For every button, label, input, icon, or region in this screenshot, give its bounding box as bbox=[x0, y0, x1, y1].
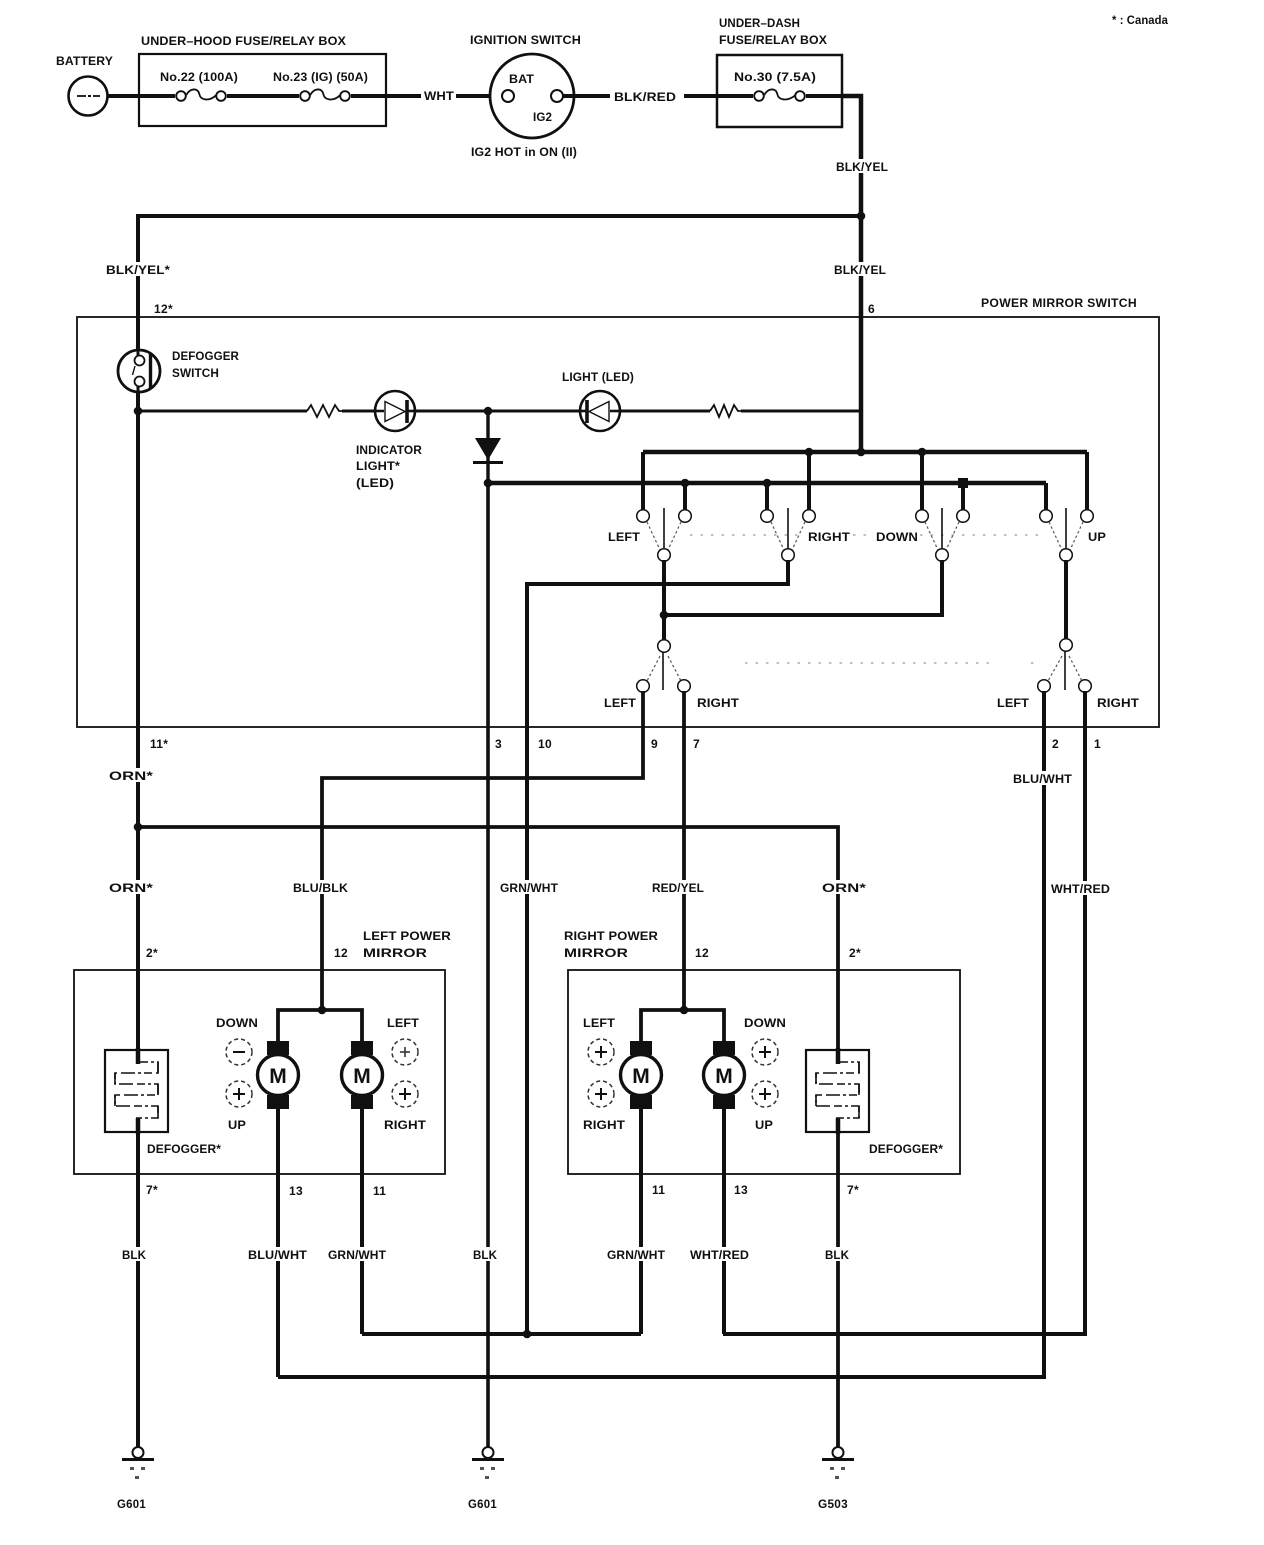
label WHT/RED mid bbox=[1049, 881, 1113, 896]
svg-text:DEFOGGER*: DEFOGGER* bbox=[869, 1144, 943, 1156]
svg-text:2: 2 bbox=[1052, 737, 1059, 751]
svg-text:13: 13 bbox=[289, 1184, 303, 1198]
svg-text:IG2: IG2 bbox=[533, 112, 552, 124]
svg-text:3: 3 bbox=[495, 737, 502, 751]
under-dash fuse/relay box bbox=[717, 18, 842, 127]
wire motor outputs left mirror bbox=[278, 1109, 362, 1377]
polarity circles left mirror bbox=[216, 1018, 426, 1132]
select switch left (LEFT/RIGHT) bbox=[604, 640, 739, 710]
wire GRN/WHT net left pin 11 bbox=[362, 1332, 641, 1336]
svg-text:LEFT: LEFT bbox=[608, 532, 640, 544]
svg-text:LEFT: LEFT bbox=[997, 698, 1029, 710]
svg-text:BLU/BLK: BLU/BLK bbox=[293, 883, 349, 895]
svg-text:BLU/WHT: BLU/WHT bbox=[248, 1250, 307, 1262]
svg-text:LEFT: LEFT bbox=[583, 1018, 615, 1030]
svg-text:1: 1 bbox=[1094, 737, 1101, 751]
wire motor outputs right mirror bbox=[641, 1109, 724, 1334]
svg-text:12*: 12* bbox=[154, 302, 173, 316]
wire pin 9 to BLU/BLK bbox=[322, 691, 643, 970]
svg-text:(LED): (LED) bbox=[356, 478, 394, 490]
svg-text:RIGHT POWER: RIGHT POWER bbox=[564, 931, 659, 943]
label GRN/WHT mid bbox=[498, 880, 560, 895]
svg-text:No.23 (IG) (50A): No.23 (IG) (50A) bbox=[273, 72, 368, 84]
svg-text:UNDER–DASH: UNDER–DASH bbox=[719, 18, 800, 30]
svg-text:12: 12 bbox=[695, 946, 709, 960]
svg-text:IGNITION SWITCH: IGNITION SWITCH bbox=[470, 35, 581, 47]
svg-text:M: M bbox=[715, 1065, 733, 1088]
junction dot at diode bbox=[484, 407, 493, 416]
label BLU/BLK bbox=[291, 880, 349, 895]
bus upper stubs bbox=[643, 452, 1087, 511]
switch LEFT (mirror adjust) bbox=[608, 508, 691, 561]
indicator light (LED) bbox=[356, 391, 423, 490]
junction dot commons bbox=[660, 611, 669, 620]
svg-text:DEFOGGER*: DEFOGGER* bbox=[147, 1144, 221, 1156]
svg-text:WHT/RED: WHT/RED bbox=[690, 1250, 749, 1262]
wire LEFT common down bbox=[662, 560, 666, 641]
wire BLK/YEL* branch to pin 12* bbox=[138, 216, 861, 317]
svg-text:RIGHT: RIGHT bbox=[384, 1120, 426, 1132]
svg-text:GRN/WHT: GRN/WHT bbox=[500, 883, 558, 895]
resistor R2 bbox=[710, 405, 741, 417]
svg-text:7: 7 bbox=[693, 737, 700, 751]
ground G601 middle bbox=[468, 1447, 504, 1511]
wire BLK/YEL vertical from under-dash box to switch pin 6 bbox=[833, 96, 889, 452]
motor M right-mirror left/right bbox=[621, 1041, 662, 1109]
svg-text:UP: UP bbox=[228, 1120, 246, 1132]
wire BLU/BLK into left mirror motors bbox=[278, 970, 362, 1043]
svg-text:RIGHT: RIGHT bbox=[697, 698, 739, 710]
wire BLK/RED to under-dash box bbox=[563, 92, 718, 104]
svg-text:UP: UP bbox=[1088, 532, 1106, 544]
svg-text:LEFT: LEFT bbox=[387, 1018, 419, 1030]
bus upper junction dots bbox=[805, 448, 927, 457]
junction dot bus lower left bbox=[484, 479, 493, 488]
bus line lower bbox=[488, 481, 1046, 486]
switch RIGHT (mirror adjust) bbox=[761, 508, 850, 561]
motor M left-mirror up/down bbox=[258, 1041, 299, 1109]
svg-text:WHT: WHT bbox=[424, 91, 454, 103]
svg-text:GRN/WHT: GRN/WHT bbox=[607, 1250, 665, 1262]
svg-text:M: M bbox=[632, 1065, 650, 1088]
pin labels right mirror bottom bbox=[652, 1183, 859, 1197]
ground G503 right bbox=[818, 1447, 854, 1511]
svg-text:No.30 (7.5A): No.30 (7.5A) bbox=[734, 72, 816, 84]
defogger switch bbox=[118, 350, 240, 392]
svg-text:BLU/WHT: BLU/WHT bbox=[1013, 774, 1072, 786]
switch DOWN (mirror adjust) bbox=[876, 508, 969, 561]
svg-text:ORN*: ORN* bbox=[109, 771, 154, 783]
wire pin 2 BLU/WHT down bbox=[278, 691, 1044, 1377]
svg-text:7*: 7* bbox=[847, 1183, 859, 1197]
note Canada bbox=[1112, 15, 1168, 27]
svg-text:DEFOGGER: DEFOGGER bbox=[172, 351, 240, 363]
svg-text:RED/YEL: RED/YEL bbox=[652, 883, 704, 895]
svg-text:M: M bbox=[353, 1065, 371, 1088]
svg-text:DOWN: DOWN bbox=[876, 532, 918, 544]
svg-text:ORN*: ORN* bbox=[822, 883, 867, 895]
svg-text:MIRROR: MIRROR bbox=[363, 948, 428, 960]
svg-text:FUSE/RELAY BOX: FUSE/RELAY BOX bbox=[719, 35, 827, 47]
fuse No.30 (7.5A) bbox=[717, 72, 842, 101]
svg-text:UNDER–HOOD FUSE/RELAY BOX: UNDER–HOOD FUSE/RELAY BOX bbox=[141, 36, 346, 48]
pin 2* left mirror bbox=[146, 946, 158, 960]
junction dot GRN/WHT bbox=[523, 1330, 532, 1339]
wire battery to under-hood box bbox=[107, 94, 140, 98]
svg-text:LIGHT*: LIGHT* bbox=[356, 461, 400, 473]
svg-text:BAT: BAT bbox=[509, 74, 534, 86]
wire RED/YEL into right mirror motors bbox=[641, 1010, 724, 1043]
svg-text:9: 9 bbox=[651, 737, 658, 751]
svg-text:11: 11 bbox=[373, 1184, 386, 1198]
label RED/YEL bbox=[650, 880, 706, 895]
left power mirror box bbox=[74, 931, 452, 1174]
bus lower junction dots bbox=[681, 478, 968, 488]
switch UP (mirror adjust) bbox=[1040, 508, 1107, 561]
svg-text:LEFT POWER: LEFT POWER bbox=[363, 931, 452, 943]
svg-text:BLK/YEL*: BLK/YEL* bbox=[106, 265, 170, 277]
pin labels bottom of switch bbox=[150, 737, 1101, 751]
svg-text:6: 6 bbox=[868, 302, 875, 316]
pin 2* right mirror bbox=[849, 946, 861, 960]
pin labels left mirror bottom bbox=[146, 1183, 386, 1198]
svg-text:DOWN: DOWN bbox=[744, 1018, 786, 1030]
svg-text:POWER MIRROR SWITCH: POWER MIRROR SWITCH bbox=[981, 296, 1137, 310]
wire DOWN common to LEFT common bbox=[664, 560, 942, 615]
defogger right bbox=[806, 1048, 943, 1156]
bottom labels bbox=[120, 1247, 150, 1262]
svg-text:UP: UP bbox=[755, 1120, 773, 1132]
motor M right-mirror up/down bbox=[704, 1041, 745, 1109]
power mirror switch box bbox=[77, 296, 1159, 727]
motor M left-mirror left/right bbox=[342, 1041, 383, 1109]
polarity circles right mirror bbox=[583, 1018, 786, 1132]
pin 12 right mirror bbox=[695, 946, 709, 960]
svg-text:2*: 2* bbox=[849, 946, 861, 960]
fuse No.22 (100A) bbox=[139, 72, 299, 101]
junction dot defogger row bbox=[134, 407, 143, 416]
svg-text:No.22 (100A): No.22 (100A) bbox=[160, 72, 238, 84]
bus lower stubs bbox=[685, 483, 1046, 511]
svg-text:ORN*: ORN* bbox=[109, 883, 154, 895]
wire pin 7 RED/YEL down bbox=[682, 691, 686, 1010]
ignition switch bbox=[470, 35, 581, 159]
wire ORN* left vertical (pin 12* to ground) bbox=[136, 317, 140, 1447]
wire RIGHT common to pin 10 bbox=[527, 560, 788, 1334]
label BLU/WHT upper bbox=[1011, 771, 1075, 786]
svg-text:10: 10 bbox=[538, 737, 552, 751]
mechanical link dashes row1 bbox=[690, 534, 1042, 536]
ground G601 left bbox=[117, 1447, 154, 1511]
wire ORN* branch to right defogger bbox=[138, 827, 838, 1447]
svg-text:DOWN: DOWN bbox=[216, 1018, 258, 1030]
under-hood fuse/relay box bbox=[139, 36, 386, 126]
battery bbox=[56, 56, 113, 116]
label BLK/YEL* bbox=[104, 262, 174, 277]
svg-text:13: 13 bbox=[734, 1183, 748, 1197]
diode bbox=[473, 411, 503, 483]
light (LED) bbox=[562, 372, 634, 431]
svg-text:G601: G601 bbox=[117, 1497, 146, 1511]
bus line upper bbox=[643, 450, 1087, 455]
pin 12 left mirror bbox=[334, 946, 348, 960]
right power mirror box bbox=[564, 931, 960, 1174]
svg-text:RIGHT: RIGHT bbox=[808, 532, 850, 544]
wire UP common down bbox=[1064, 560, 1068, 639]
label ORN* upper bbox=[107, 768, 154, 783]
mechanical link dashes row2 bbox=[745, 662, 1040, 664]
junction dot left mirror bbox=[318, 1006, 327, 1015]
svg-text:GRN/WHT: GRN/WHT bbox=[328, 1250, 386, 1262]
junction dot ORN* bbox=[134, 823, 143, 832]
svg-text:BLK/YEL: BLK/YEL bbox=[834, 265, 886, 277]
svg-text:12: 12 bbox=[334, 946, 348, 960]
svg-text:BLK: BLK bbox=[122, 1250, 147, 1262]
pin 12* bbox=[154, 302, 173, 316]
svg-text:IG2 HOT in ON (II): IG2 HOT in ON (II) bbox=[471, 147, 577, 159]
wire WHT to ignition switch bbox=[386, 91, 502, 103]
svg-text:INDICATOR: INDICATOR bbox=[356, 445, 423, 457]
label ORN* mid bbox=[107, 880, 154, 895]
wire pin 1 WHT/RED down bbox=[723, 691, 1085, 1334]
junction at BLK/YEL branch bbox=[857, 212, 866, 221]
svg-text:G601: G601 bbox=[468, 1497, 497, 1511]
svg-text:2*: 2* bbox=[146, 946, 158, 960]
svg-text:7*: 7* bbox=[146, 1183, 158, 1197]
label BLK/YEL right bbox=[832, 262, 892, 277]
svg-text:BLK/RED: BLK/RED bbox=[614, 92, 676, 104]
svg-text:MIRROR: MIRROR bbox=[564, 948, 629, 960]
defogger left bbox=[105, 1048, 221, 1156]
svg-text:SWITCH: SWITCH bbox=[172, 368, 219, 380]
svg-text:M: M bbox=[269, 1065, 287, 1088]
svg-text:11: 11 bbox=[652, 1183, 665, 1197]
label ORN* right bbox=[820, 880, 867, 895]
svg-text:BLK/YEL: BLK/YEL bbox=[836, 162, 888, 174]
svg-text:G503: G503 bbox=[818, 1497, 848, 1511]
junction dot right mirror bbox=[680, 1006, 689, 1015]
svg-text:RIGHT: RIGHT bbox=[583, 1120, 625, 1132]
svg-text:RIGHT: RIGHT bbox=[1097, 698, 1139, 710]
svg-text:BLK: BLK bbox=[825, 1250, 850, 1262]
svg-text:LEFT: LEFT bbox=[604, 698, 636, 710]
fuse No.23 (IG) (50A) bbox=[273, 72, 386, 101]
select switch right (LEFT/RIGHT) bbox=[997, 639, 1139, 710]
resistor R1 bbox=[307, 405, 342, 417]
svg-text:WHT/RED: WHT/RED bbox=[1051, 884, 1110, 896]
svg-text:11*: 11* bbox=[150, 737, 168, 751]
pin 6 bbox=[868, 302, 875, 316]
svg-text:LIGHT (LED): LIGHT (LED) bbox=[562, 372, 634, 384]
wire row y411 bbox=[138, 410, 861, 413]
svg-text:BATTERY: BATTERY bbox=[56, 56, 113, 68]
svg-text:* : Canada: * : Canada bbox=[1112, 15, 1168, 27]
wire BLK pin 3 vertical to ground bbox=[486, 483, 490, 1447]
svg-text:BLK: BLK bbox=[473, 1250, 498, 1262]
